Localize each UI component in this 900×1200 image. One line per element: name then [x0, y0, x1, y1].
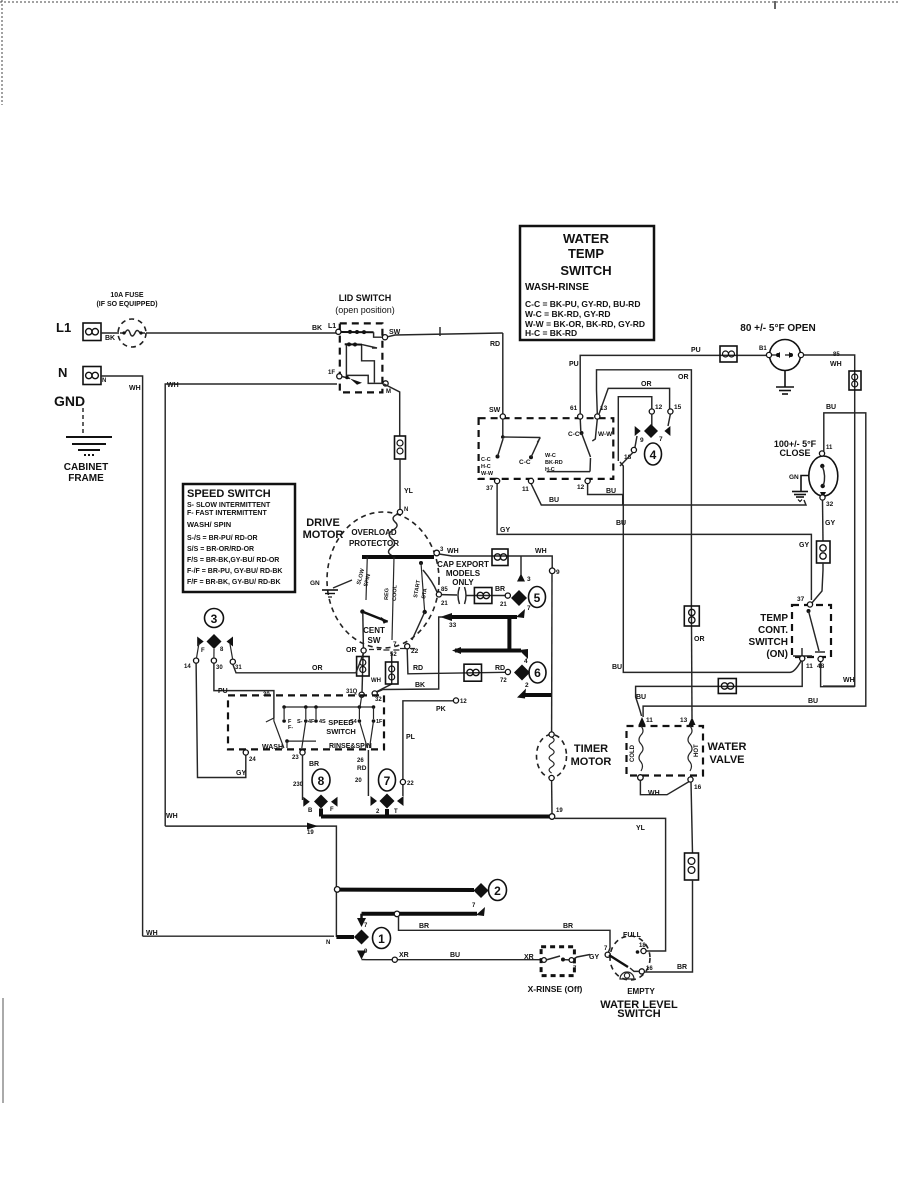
cluster 1 diamond	[354, 930, 369, 945]
wire cent sw down to OR contact	[362, 613, 365, 648]
drive motor dashed circle	[327, 512, 439, 648]
svg-text:HOT: HOT	[694, 744, 700, 757]
svg-text:16: 16	[694, 784, 702, 791]
speed switch BR output terminal	[300, 750, 305, 755]
thick stub N into cluster 1	[336, 935, 354, 939]
svg-text:BU: BU	[808, 698, 818, 705]
svg-text:PU: PU	[569, 361, 579, 368]
motor terminal 22	[405, 644, 410, 649]
cluster 8 thick stem to bus	[319, 809, 323, 817]
svg-text:3: 3	[527, 576, 531, 583]
svg-text:(ON): (ON)	[766, 649, 788, 660]
wire 15 down to right arrow	[668, 414, 670, 426]
svg-text:4: 4	[524, 658, 528, 665]
wire fuse to lid switch (BK)	[146, 332, 337, 334]
OR contact junction	[361, 648, 366, 653]
wire from terminal 12 loop to BU	[588, 484, 623, 505]
connector on capacitor wire	[474, 588, 492, 604]
svg-text:CONT.: CONT.	[758, 625, 788, 636]
pressure switch assembly 4: terminals 12 and 15	[649, 409, 654, 414]
water temp switch info box	[520, 226, 654, 340]
svg-text:CENT: CENT	[363, 626, 385, 635]
central OR vertical wire to water valve 13	[690, 605, 693, 718]
svg-text:SWITCH: SWITCH	[749, 637, 788, 648]
water level switch dashed circle	[610, 936, 650, 980]
svg-text:19: 19	[556, 808, 563, 814]
timer contact circle 8	[312, 769, 330, 791]
motor winding start	[413, 561, 429, 612]
svg-text:37: 37	[486, 485, 494, 492]
svg-text:22: 22	[407, 781, 414, 787]
svg-text:C-C = BK-PU, GY-RD, BU-RD: C-C = BK-PU, GY-RD, BU-RD	[525, 299, 640, 309]
svg-text:9: 9	[556, 569, 560, 576]
svg-text:PU: PU	[691, 347, 701, 354]
wire WH from right vertical to temp cont 48	[821, 662, 855, 687]
timer contact circle 7	[379, 769, 396, 791]
thick motor common bus	[362, 555, 434, 559]
svg-text:BK: BK	[312, 325, 322, 332]
x-rinse contacts	[542, 955, 590, 963]
svg-text:OR: OR	[641, 381, 652, 388]
svg-text:9: 9	[640, 437, 644, 444]
connector N terminal box	[83, 367, 101, 385]
wire 18 joins BU drop	[620, 453, 633, 467]
speed switch info box	[183, 484, 295, 592]
arrowhead at left end of pin4 wire	[452, 647, 461, 654]
svg-text:B1: B1	[759, 346, 767, 352]
svg-text:WATER: WATER	[708, 741, 747, 753]
down arrow from lower run into cluster 1	[360, 914, 363, 919]
page top tick mark	[774, 1, 776, 9]
svg-text:1F: 1F	[376, 719, 383, 725]
svg-text:31Q: 31Q	[346, 689, 358, 695]
junction terminal 9	[549, 568, 555, 574]
thick wire cluster 6 to timer vertical	[522, 693, 552, 697]
thick drop from 33 run	[507, 617, 511, 651]
svg-text:SW: SW	[489, 407, 501, 414]
svg-text:24: 24	[249, 757, 256, 763]
timer motor dashed circle	[537, 735, 567, 778]
svg-text:32: 32	[375, 697, 382, 703]
svg-text:11: 11	[522, 486, 529, 493]
svg-text:SW: SW	[368, 636, 381, 645]
svg-text:80 +/- 5°F OPEN: 80 +/- 5°F OPEN	[740, 323, 815, 334]
wire BU top loop to 100F thermostat	[643, 413, 866, 717]
svg-text:SWITCH: SWITCH	[560, 263, 611, 278]
svg-text:SWITCH: SWITCH	[326, 727, 356, 736]
svg-text:RD: RD	[357, 765, 367, 772]
cluster 2 lower triangle	[476, 907, 485, 916]
svg-text:7: 7	[393, 641, 397, 648]
svg-text:21: 21	[441, 601, 448, 607]
svg-text:LID SWITCH: LID SWITCH	[339, 293, 392, 303]
svg-text:F: F	[330, 807, 334, 813]
svg-text:WH: WH	[371, 678, 381, 684]
fuse 10A dashed circle	[118, 319, 146, 347]
svg-text:RD: RD	[413, 665, 423, 672]
empty terminal 16	[639, 969, 644, 974]
connector on valve feed wire	[718, 679, 736, 694]
contact cluster 5 diamond	[511, 590, 527, 606]
svg-text:BU: BU	[636, 694, 646, 701]
thin neutral bus bottom of motor box	[165, 826, 336, 937]
timer contact circle 3	[205, 609, 224, 628]
svg-text:S4: S4	[350, 719, 358, 725]
svg-text:10A FUSE: 10A FUSE	[110, 292, 144, 299]
timer contact circle 5	[529, 587, 546, 608]
connector on PU wire	[720, 346, 737, 362]
wire temp cont 11 to water valve 11 via connector	[636, 661, 803, 716]
svg-text:MOTOR: MOTOR	[571, 756, 612, 768]
wire from valve 16 down to water level switch	[691, 782, 693, 853]
svg-text:11: 11	[646, 717, 653, 724]
svg-text:BU: BU	[606, 488, 616, 495]
svg-text:OR: OR	[678, 374, 689, 381]
svg-text:WH: WH	[830, 361, 842, 368]
terminal before cluster 5	[505, 593, 510, 598]
svg-text:GY: GY	[236, 770, 246, 777]
terminal before cluster 6	[505, 669, 510, 674]
svg-text:M: M	[386, 389, 391, 395]
motor ground GN	[310, 580, 352, 597]
ground at 100F thermostat	[792, 476, 809, 502]
wire from 14 down to speed switch wash contact	[196, 663, 246, 777]
svg-text:N: N	[102, 378, 106, 384]
wire empty contact to 16	[630, 968, 639, 971]
arrow 33	[440, 613, 452, 621]
overload protector element	[389, 514, 399, 557]
svg-text:BK-RD: BK-RD	[545, 460, 563, 466]
thick bus to timer motor	[321, 815, 549, 819]
svg-text:SPEED SWITCH: SPEED SWITCH	[187, 488, 271, 500]
ground under 80F thermostat	[776, 371, 794, 395]
svg-text:WASH: WASH	[262, 744, 283, 751]
motor winding slow-spin	[356, 555, 372, 600]
svg-text:16: 16	[646, 966, 653, 972]
svg-text:8: 8	[318, 774, 325, 788]
terminal 18 of cluster 4	[631, 447, 636, 452]
x-rinse dashed box	[541, 947, 574, 976]
svg-text:PU: PU	[218, 688, 228, 695]
speed switch wash output terminal	[243, 750, 248, 755]
wire ground stem dashed	[82, 408, 84, 434]
wire WH loop cold coil to terminal 16	[640, 780, 690, 794]
svg-text:1: 1	[378, 932, 385, 946]
svg-text:BR: BR	[495, 586, 505, 593]
svg-text:GN: GN	[310, 580, 320, 587]
svg-text:C-C: C-C	[568, 431, 580, 438]
svg-text:REG: REG	[384, 588, 390, 600]
svg-text:F- FAST INTERMITTENT: F- FAST INTERMITTENT	[187, 510, 267, 517]
contact tick marks at OR junction	[369, 649, 381, 651]
water temp switch internals	[481, 414, 613, 477]
svg-text:OR: OR	[694, 636, 705, 643]
svg-text:SW: SW	[389, 329, 401, 336]
svg-text:F/S = BR-BK,GY-BU/ RD-OR: F/S = BR-BK,GY-BU/ RD-OR	[187, 557, 279, 564]
svg-text:WH: WH	[535, 548, 547, 555]
svg-text:RD: RD	[490, 341, 500, 348]
wire OR contact down through connector to pin 31Q	[362, 653, 363, 693]
svg-text:N: N	[404, 507, 408, 513]
svg-text:VALVE: VALVE	[709, 754, 744, 766]
wire reg contact down through connector to pin 32	[376, 652, 392, 692]
wire L1 BK to fuse	[101, 332, 119, 334]
svg-text:(open position): (open position)	[335, 305, 395, 315]
page top edge dotted line	[0, 1, 900, 3]
svg-text:GY: GY	[500, 527, 510, 534]
svg-text:12: 12	[655, 404, 663, 411]
cluster 3 left arrow	[197, 637, 204, 647]
hot solenoid coil	[688, 726, 692, 771]
svg-text:31: 31	[235, 665, 242, 671]
full terminal 18	[641, 948, 646, 953]
water valve terminal 11 arrow	[639, 717, 646, 725]
terminal 22 on PL wire	[400, 779, 405, 784]
svg-text:H-C: H-C	[481, 464, 491, 470]
svg-text:7: 7	[384, 774, 391, 788]
cluster 5 lower triangle pin 7	[516, 609, 525, 618]
wire PK from motor area down to cluster 7 right	[403, 701, 454, 796]
svg-text:S/S = BR-OR/RD-OR: S/S = BR-OR/RD-OR	[187, 546, 254, 553]
svg-text:12: 12	[577, 484, 585, 491]
svg-text:4: 4	[650, 448, 657, 462]
timer motor top terminal	[549, 732, 554, 737]
motor top terminal	[397, 509, 402, 514]
svg-text:WH: WH	[447, 548, 459, 555]
svg-text:PL: PL	[406, 734, 416, 741]
svg-text:S-/S = BR-PU/ RD-OR: S-/S = BR-PU/ RD-OR	[187, 535, 258, 542]
svg-text:14: 14	[184, 664, 191, 670]
svg-text:RINSE&SPIN: RINSE&SPIN	[329, 743, 372, 750]
ground cabinet frame symbol	[66, 437, 112, 455]
svg-text:C-C: C-C	[519, 459, 531, 466]
svg-text:F/F = BR-BK, GY-BU/ RD-BK: F/F = BR-BK, GY-BU/ RD-BK	[187, 579, 281, 586]
svg-text:S- SLOW INTERMITTENT: S- SLOW INTERMITTENT	[187, 502, 271, 509]
thick wire to cluster 6 pin 4	[455, 649, 521, 653]
svg-text:15: 15	[674, 404, 682, 411]
page left lower edge line	[2, 998, 4, 1103]
svg-text:DRIVE: DRIVE	[306, 517, 340, 529]
wire timer bottom to bus terminal	[551, 781, 553, 814]
cluster 3 terminals 14 30 31	[194, 658, 199, 663]
svg-text:WH: WH	[166, 813, 178, 820]
svg-text:37: 37	[797, 596, 805, 603]
svg-text:33: 33	[449, 622, 457, 629]
wire OR from 31 to cent-sw contact	[233, 653, 364, 673]
svg-text:21: 21	[500, 602, 507, 608]
temp cont switch dashed box	[792, 605, 831, 657]
svg-text:W-W: W-W	[598, 431, 613, 438]
svg-text:26: 26	[357, 758, 364, 764]
wire BR from junction down then right	[399, 916, 611, 952]
pressure dome symbol	[620, 972, 634, 979]
contact cluster 4 diamond	[644, 424, 658, 438]
wire GY from terminal 37 down and right to temp cont switch	[497, 484, 811, 600]
svg-text:YL: YL	[636, 825, 646, 832]
wire PU from 30 to speed switch	[214, 663, 274, 718]
water level common terminal 7	[605, 952, 610, 957]
speed switch internal rail	[284, 706, 373, 708]
timer contact circle 4	[645, 443, 662, 465]
svg-text:F: F	[201, 648, 205, 654]
svg-text:61: 61	[570, 405, 578, 412]
connector on valve 16 wire	[685, 853, 699, 880]
cold solenoid coil	[639, 726, 643, 771]
wire YL connector to motor top	[399, 459, 401, 510]
svg-text:BK: BK	[415, 682, 425, 689]
svg-text:COLD: COLD	[630, 744, 636, 762]
svg-text:GND: GND	[54, 393, 85, 409]
svg-text:W-W: W-W	[481, 471, 494, 477]
wire 31Q stub into box	[360, 697, 362, 707]
cluster 3 right arrow	[227, 637, 234, 647]
water temp switch contact dashed box	[479, 418, 614, 479]
svg-text:BR: BR	[677, 964, 687, 971]
svg-text:18: 18	[639, 943, 646, 949]
reg winding contact bar	[383, 649, 399, 651]
svg-text:PK: PK	[436, 706, 446, 713]
svg-text:6: 6	[534, 666, 541, 680]
connector box on reg line	[386, 662, 399, 684]
svg-text:WASH/ SPIN: WASH/ SPIN	[187, 520, 231, 529]
svg-text:3: 3	[211, 612, 218, 626]
svg-text:WATER: WATER	[563, 231, 610, 246]
svg-text:20: 20	[355, 778, 362, 784]
motor pin 32	[372, 691, 377, 696]
connector 8 on YL wire	[395, 436, 406, 459]
connector on RD wire	[464, 664, 482, 681]
connector box on cent-sw line	[357, 657, 370, 677]
arrow into pin 4	[519, 649, 528, 659]
timer contact circle 2	[489, 880, 507, 901]
cluster 7 diamond	[380, 794, 395, 809]
svg-text:CLOSE: CLOSE	[779, 448, 810, 458]
svg-text:H-C = BK-RD: H-C = BK-RD	[525, 328, 577, 338]
thick wire to cluster 2	[340, 888, 474, 892]
connector on central OR vertical	[684, 606, 699, 626]
svg-text:BU: BU	[612, 664, 622, 671]
connector L1 terminal box	[83, 323, 101, 341]
svg-text:B: B	[308, 808, 313, 814]
wire pin3 to WH line	[520, 556, 522, 575]
thick wire lower run to cluster 2	[362, 912, 478, 916]
svg-text:ONLY: ONLY	[452, 578, 474, 587]
svg-text:OR: OR	[346, 647, 357, 654]
svg-text:5: 5	[534, 591, 541, 605]
svg-text:C-C: C-C	[481, 457, 491, 463]
thermostat 100F circle	[809, 451, 838, 500]
wire N second branch WH to lid switch lower terminal	[165, 384, 337, 826]
svg-text:13: 13	[680, 717, 688, 724]
svg-text:TEMP: TEMP	[760, 613, 788, 624]
contact cluster 6 diamond	[514, 665, 530, 681]
svg-text:WASH-RINSE: WASH-RINSE	[525, 282, 589, 293]
svg-text:CABINET: CABINET	[64, 462, 108, 473]
arrow on neutral bus	[307, 823, 318, 830]
svg-text:BU: BU	[826, 404, 836, 411]
svg-text:FRAME: FRAME	[68, 473, 104, 484]
lid switch internals	[328, 329, 503, 395]
cluster 8 diamond	[314, 795, 328, 809]
svg-text:WH: WH	[129, 385, 141, 392]
svg-text:4S: 4S	[319, 719, 326, 725]
water valve bottom left terminal	[638, 775, 644, 781]
wire WH motor to junction 9	[439, 554, 552, 568]
svg-text:W-C = BK-RD, GY-RD: W-C = BK-RD, GY-RD	[525, 309, 611, 319]
svg-text:19: 19	[307, 830, 314, 836]
svg-text:BU: BU	[616, 520, 626, 527]
wire WH from 80F right terminal down right side	[804, 355, 855, 686]
terminal 12 on PK stub	[453, 698, 458, 703]
svg-text:XR: XR	[399, 952, 409, 959]
svg-text:TIMER: TIMER	[574, 743, 608, 755]
water valve terminal 13 arrow	[689, 717, 696, 725]
wire OR inner from 13 to terminal 15	[599, 388, 670, 414]
connector on WH right vertical	[849, 371, 861, 390]
svg-text:YL: YL	[404, 488, 414, 495]
cluster 4 left arrow	[635, 426, 641, 436]
svg-text:GY: GY	[799, 542, 809, 549]
svg-text:L1: L1	[56, 320, 71, 335]
svg-text:F-: F-	[288, 725, 293, 731]
cluster 6 lower pin 2 triangle	[517, 689, 526, 699]
cluster 7 thick stem	[385, 809, 389, 817]
wire BK motor 32 to 33 riser	[377, 617, 444, 692]
timer motor bottom terminal	[549, 775, 554, 780]
wire BU from terminal 11	[531, 484, 806, 505]
svg-text:COOL: COOL	[392, 584, 399, 601]
tick connector mark on BK wire	[439, 327, 441, 336]
svg-text:N: N	[326, 940, 330, 946]
svg-text:WH: WH	[167, 382, 179, 389]
wire 18 to left arrow	[635, 436, 637, 448]
cluster 2 diamond	[474, 883, 489, 898]
svg-text:BU: BU	[549, 497, 559, 504]
svg-text:X-RINSE (Off): X-RINSE (Off)	[528, 984, 583, 994]
wire WH bottom horizontal to circle 1 cluster	[143, 935, 334, 937]
timer contact circle 1	[373, 928, 391, 949]
svg-text:7: 7	[659, 436, 663, 443]
svg-text:BU: BU	[450, 952, 460, 959]
svg-text:SWITCH: SWITCH	[617, 1008, 660, 1020]
svg-text:72: 72	[500, 678, 507, 684]
svg-text:(IF SO EQUIPPED): (IF SO EQUIPPED)	[96, 301, 157, 308]
svg-text:2: 2	[494, 884, 501, 898]
cluster 7 right arrow	[397, 796, 404, 806]
wire from 9 down to timer motor	[551, 574, 553, 734]
svg-text:CAP EXPORT: CAP EXPORT	[437, 560, 489, 569]
motor winding regular	[384, 555, 399, 640]
terminal 19 at thick bus end	[549, 814, 555, 820]
wire BU from temp cont 11 left long run	[620, 462, 801, 672]
svg-text:GN: GN	[789, 474, 799, 481]
wire connector to terminal 37	[811, 563, 823, 604]
svg-text:85: 85	[441, 587, 448, 593]
wire GY 100F-32 to connector to temp cont switch 37	[822, 500, 825, 541]
svg-text:S-: S-	[297, 719, 303, 725]
svg-text:MODELS: MODELS	[446, 569, 481, 578]
motor bus right terminal	[434, 550, 440, 556]
svg-text:1F: 1F	[328, 370, 335, 376]
svg-text:22: 22	[411, 648, 419, 655]
wire 12 up-over-down dotted loop	[618, 397, 652, 461]
wire N white: right then down long left WH bus to bottom	[101, 376, 143, 936]
wire connector to BR corner at water level switch	[644, 880, 692, 972]
svg-text:30: 30	[216, 665, 223, 671]
water temp bottom terminals 37 11 12	[495, 478, 500, 483]
connector on GY wire	[817, 541, 831, 563]
svg-text:F-/F = BR-PU, GY-BU/ RD-BK: F-/F = BR-PU, GY-BU/ RD-BK	[187, 568, 282, 575]
